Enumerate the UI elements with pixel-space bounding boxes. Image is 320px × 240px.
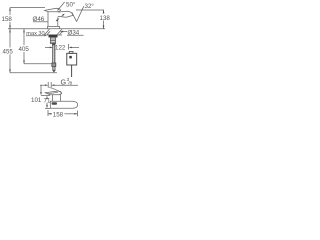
158 top up bbox=[9, 7, 11, 10]
svg-text:G: G bbox=[61, 77, 67, 86]
455 bottom extension bbox=[10, 72, 57, 74]
svg-text:158: 158 bbox=[53, 112, 64, 119]
455 top up bbox=[9, 29, 11, 32]
dimension texts bbox=[2, 2, 111, 119]
405 top up bbox=[23, 29, 25, 32]
122 dim bbox=[45, 46, 51, 48]
Ø34 leader bbox=[67, 34, 84, 36]
svg-text:32°: 32° bbox=[85, 3, 95, 10]
svg-text:122: 122 bbox=[55, 45, 66, 52]
158 dim line left bbox=[9, 8, 11, 15]
Ø46 underline bbox=[33, 21, 48, 23]
spout bbox=[58, 11, 73, 17]
deck top extension line (full width) bbox=[8, 28, 105, 30]
svg-text:405: 405 bbox=[19, 46, 30, 53]
hose tube bbox=[52, 44, 54, 63]
138 bottom down bbox=[103, 25, 105, 28]
svg-text:max 30: max 30 bbox=[26, 31, 44, 37]
shank washer bbox=[49, 35, 57, 37]
max30 underline bbox=[26, 35, 46, 37]
svg-text:71: 71 bbox=[44, 98, 51, 105]
bottom faucet body bbox=[52, 95, 54, 102]
158 dim bottom bbox=[47, 110, 49, 116]
bottom faucet lever bbox=[45, 91, 61, 95]
122 right arrow pointing left bbox=[69, 47, 72, 49]
lever handle bbox=[45, 8, 61, 12]
svg-text:101: 101 bbox=[31, 97, 42, 104]
svg-text:50°: 50° bbox=[66, 2, 76, 9]
bottom view: 101 dim bbox=[40, 85, 42, 93]
arrowheads bbox=[9, 7, 104, 114]
deck section bottom line bbox=[44, 34, 50, 36]
G3/8 right-pointing bbox=[45, 84, 48, 86]
G3/8 left-pointing bbox=[51, 84, 54, 86]
Ø34 arrow pointing left bbox=[60, 31, 63, 33]
hose fitting bbox=[52, 63, 56, 67]
455 dim line bbox=[9, 29, 11, 48]
71 down bbox=[46, 105, 48, 108]
158b right bbox=[74, 113, 77, 115]
32 deg stream V bbox=[72, 12, 77, 21]
svg-text:138: 138 bbox=[100, 15, 111, 22]
50 deg line bbox=[58, 2, 65, 10]
71 up bbox=[46, 96, 48, 99]
svg-text:Ø34: Ø34 bbox=[68, 29, 80, 36]
top extension line (158 top, to lever) bbox=[10, 7, 45, 9]
hose thread bbox=[53, 67, 55, 71]
71 dim bbox=[46, 95, 48, 97]
svg-text:455: 455 bbox=[3, 49, 14, 56]
405 bottom extension bbox=[24, 63, 53, 65]
158b left bbox=[48, 113, 51, 115]
405 bottom down bbox=[23, 60, 25, 63]
threaded shank bbox=[50, 37, 55, 43]
bottom spout stadium bbox=[50, 101, 77, 108]
svg-text:158: 158 bbox=[2, 16, 13, 23]
50deg small arrow at lever bbox=[57, 9, 59, 11]
stream arrows bbox=[62, 14, 65, 16]
158 bottom down bbox=[9, 26, 11, 29]
svg-text:/8: /8 bbox=[68, 81, 72, 87]
138 dim bbox=[103, 10, 105, 14]
455 bottom down bbox=[9, 69, 11, 72]
svg-text:Ø46: Ø46 bbox=[33, 16, 45, 23]
G3/8 dim ticks bbox=[40, 84, 47, 86]
deck hatching right bbox=[57, 29, 62, 35]
deck hatching left bbox=[45, 29, 50, 35]
stream double arrow bbox=[62, 15, 64, 17]
405 dim line bbox=[23, 29, 25, 45]
bottom lever raised ghost bbox=[48, 87, 60, 92]
138 top up bbox=[103, 10, 105, 13]
faucet body outline bbox=[47, 12, 49, 27]
box detail (hose end) bbox=[69, 51, 73, 53]
101 down bbox=[40, 92, 42, 95]
122 left arrow pointing right bbox=[50, 47, 53, 49]
